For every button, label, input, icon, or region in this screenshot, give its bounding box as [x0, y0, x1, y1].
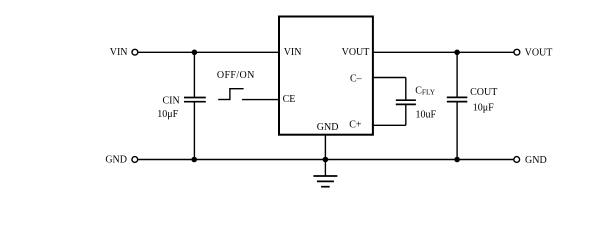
svg-text:CIN: CIN [163, 96, 180, 107]
svg-text:GND: GND [317, 122, 339, 133]
svg-text:OFF/ON: OFF/ON [217, 70, 255, 81]
svg-text:10μF: 10μF [157, 109, 178, 120]
svg-text:GND: GND [525, 155, 547, 166]
svg-text:VIN: VIN [284, 47, 302, 58]
svg-text:CFLY: CFLY [415, 86, 436, 97]
svg-text:VOUT: VOUT [525, 47, 553, 58]
svg-text:10uF: 10uF [416, 110, 437, 121]
svg-text:VOUT: VOUT [342, 47, 370, 58]
svg-text:GND: GND [105, 155, 127, 166]
svg-text:VIN: VIN [110, 47, 128, 58]
svg-text:C–: C– [350, 74, 363, 85]
svg-text:C+: C+ [349, 120, 362, 131]
svg-text:COUT: COUT [470, 87, 497, 98]
svg-text:CE: CE [283, 94, 296, 105]
svg-text:10μF: 10μF [473, 102, 494, 113]
